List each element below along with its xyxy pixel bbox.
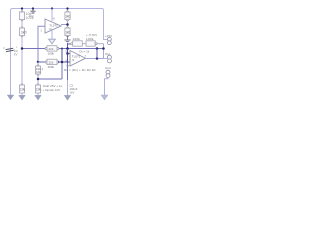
resistor R5: [65, 11, 71, 21]
node dot rail x22: [21, 7, 23, 9]
resistor R6: [65, 27, 71, 37]
wire feedback corner to box chain: [68, 44, 72, 49]
svg-text:=: =: [3, 46, 5, 50]
svg-text:1k0: 1k0: [21, 30, 27, 34]
svg-text:10k: 10k: [36, 70, 41, 74]
wire x38 lower chain: [37, 62, 39, 95]
node dot (97,58.5): [96, 57, 99, 60]
svg-text:100k: 100k: [48, 52, 55, 56]
ground (U1A) open arrow: [49, 39, 56, 44]
wire op-amp U1A +input corner: [38, 26, 45, 62]
wire x52 supply stub to op-amp U1A: [51, 9, 53, 22]
ground (x22 bottom): [19, 95, 26, 100]
resistor R10 (box B): [86, 37, 97, 46]
wire x62 vertical: [61, 49, 63, 64]
node dot (62,48.5): [61, 48, 63, 50]
svg-text:1k0: 1k0: [65, 15, 70, 19]
wire stub to U1B +input: [68, 53, 71, 55]
op-amp U1B: [66, 50, 86, 66]
op-amp U1A: [41, 17, 62, 33]
svg-text:+ bipolar 10V: + bipolar 10V: [43, 88, 61, 92]
ground (x38 bottom): [35, 95, 42, 100]
node dot rail x33: [32, 7, 34, 9]
resistor R2: [19, 27, 26, 37]
svg-text:100k: 100k: [73, 37, 81, 41]
wire (38,62) to box Q: [38, 61, 46, 63]
wire1 horizontal y48.5: [22, 48, 104, 50]
wire x67 vertical chain top: [67, 9, 69, 13]
wire jack J2 to ground: [105, 78, 109, 95]
resistor R8 (box Q): [45, 59, 59, 69]
svg-text:100k: 100k: [48, 65, 55, 69]
wire box A to box B: [82, 43, 86, 45]
svg-text:Gnd: Gnd: [105, 66, 111, 70]
capacitor C6 on left rail: [6, 48, 14, 51]
node dot rail x67: [66, 7, 68, 9]
wire U1B output: [86, 58, 104, 60]
wire x22 vertical chain: [21, 9, 23, 96]
wire top supply rail: [11, 9, 108, 96]
wire x67 lower vertical: [67, 49, 69, 64]
wire box B corner down to out corner: [103, 44, 105, 59]
svg-text:10u: 10u: [20, 88, 26, 92]
node dot (38,79): [37, 78, 40, 81]
svg-text:22k: 22k: [49, 47, 54, 51]
svg-text:10u: 10u: [36, 88, 42, 92]
svg-text:16V: 16V: [70, 90, 75, 94]
jack J2: [106, 70, 110, 78]
wire y79 horizontal: [38, 78, 62, 80]
capacitor C4: [35, 84, 41, 93]
ground (bottom right arrow): [101, 95, 108, 100]
output jack J1: [107, 55, 111, 63]
node dot (97,48.5): [96, 47, 99, 50]
wire op-amp U1A output: [61, 24, 68, 26]
svg-text:100k: 100k: [86, 37, 94, 41]
node dot (38,62): [37, 61, 40, 64]
ground (x67 bottom): [64, 95, 71, 100]
node dot (67.5,53.5): [66, 52, 69, 55]
svg-text:RL = (R1) + Rx R2 kR: RL = (R1) + Rx R2 kR: [64, 68, 96, 72]
capacitor C3: [19, 84, 25, 93]
ground stub (x33 bypass): [30, 9, 35, 14]
svg-text:22k: 22k: [49, 61, 54, 65]
wire out stub: [104, 58, 108, 60]
jack J3 (+15V input): [108, 37, 112, 44]
ground (left rail bottom): [7, 95, 14, 100]
node dot rail x52: [51, 7, 53, 9]
resistor R4: [35, 65, 43, 76]
node dot (104,48.5): [102, 47, 105, 50]
node dot U1A output: [66, 23, 69, 26]
svg-text:1k0: 1k0: [65, 31, 70, 35]
svg-text:10n: 10n: [29, 14, 34, 18]
node dot (22,48.5): [21, 47, 24, 50]
ground (x67 mini): [64, 36, 70, 44]
wire op-amp U1A ground stub: [51, 30, 53, 39]
node dot (62,62): [61, 61, 64, 64]
svg-text:+ (7.5V): + (7.5V): [86, 33, 97, 37]
svg-text:/2: /2: [72, 58, 75, 62]
resistor R1: [19, 11, 33, 21]
wire box B to right rail corner: [97, 43, 103, 45]
wire2 box Q to op-amp U1B: [58, 61, 70, 63]
wire x97 feedback vertical: [96, 49, 98, 59]
wire R5 to node: [67, 20, 69, 28]
resistor R9 (box A): [71, 37, 82, 46]
resistor R7 on wire1: [45, 46, 59, 56]
node dot (67.5,48.5): [66, 47, 69, 50]
